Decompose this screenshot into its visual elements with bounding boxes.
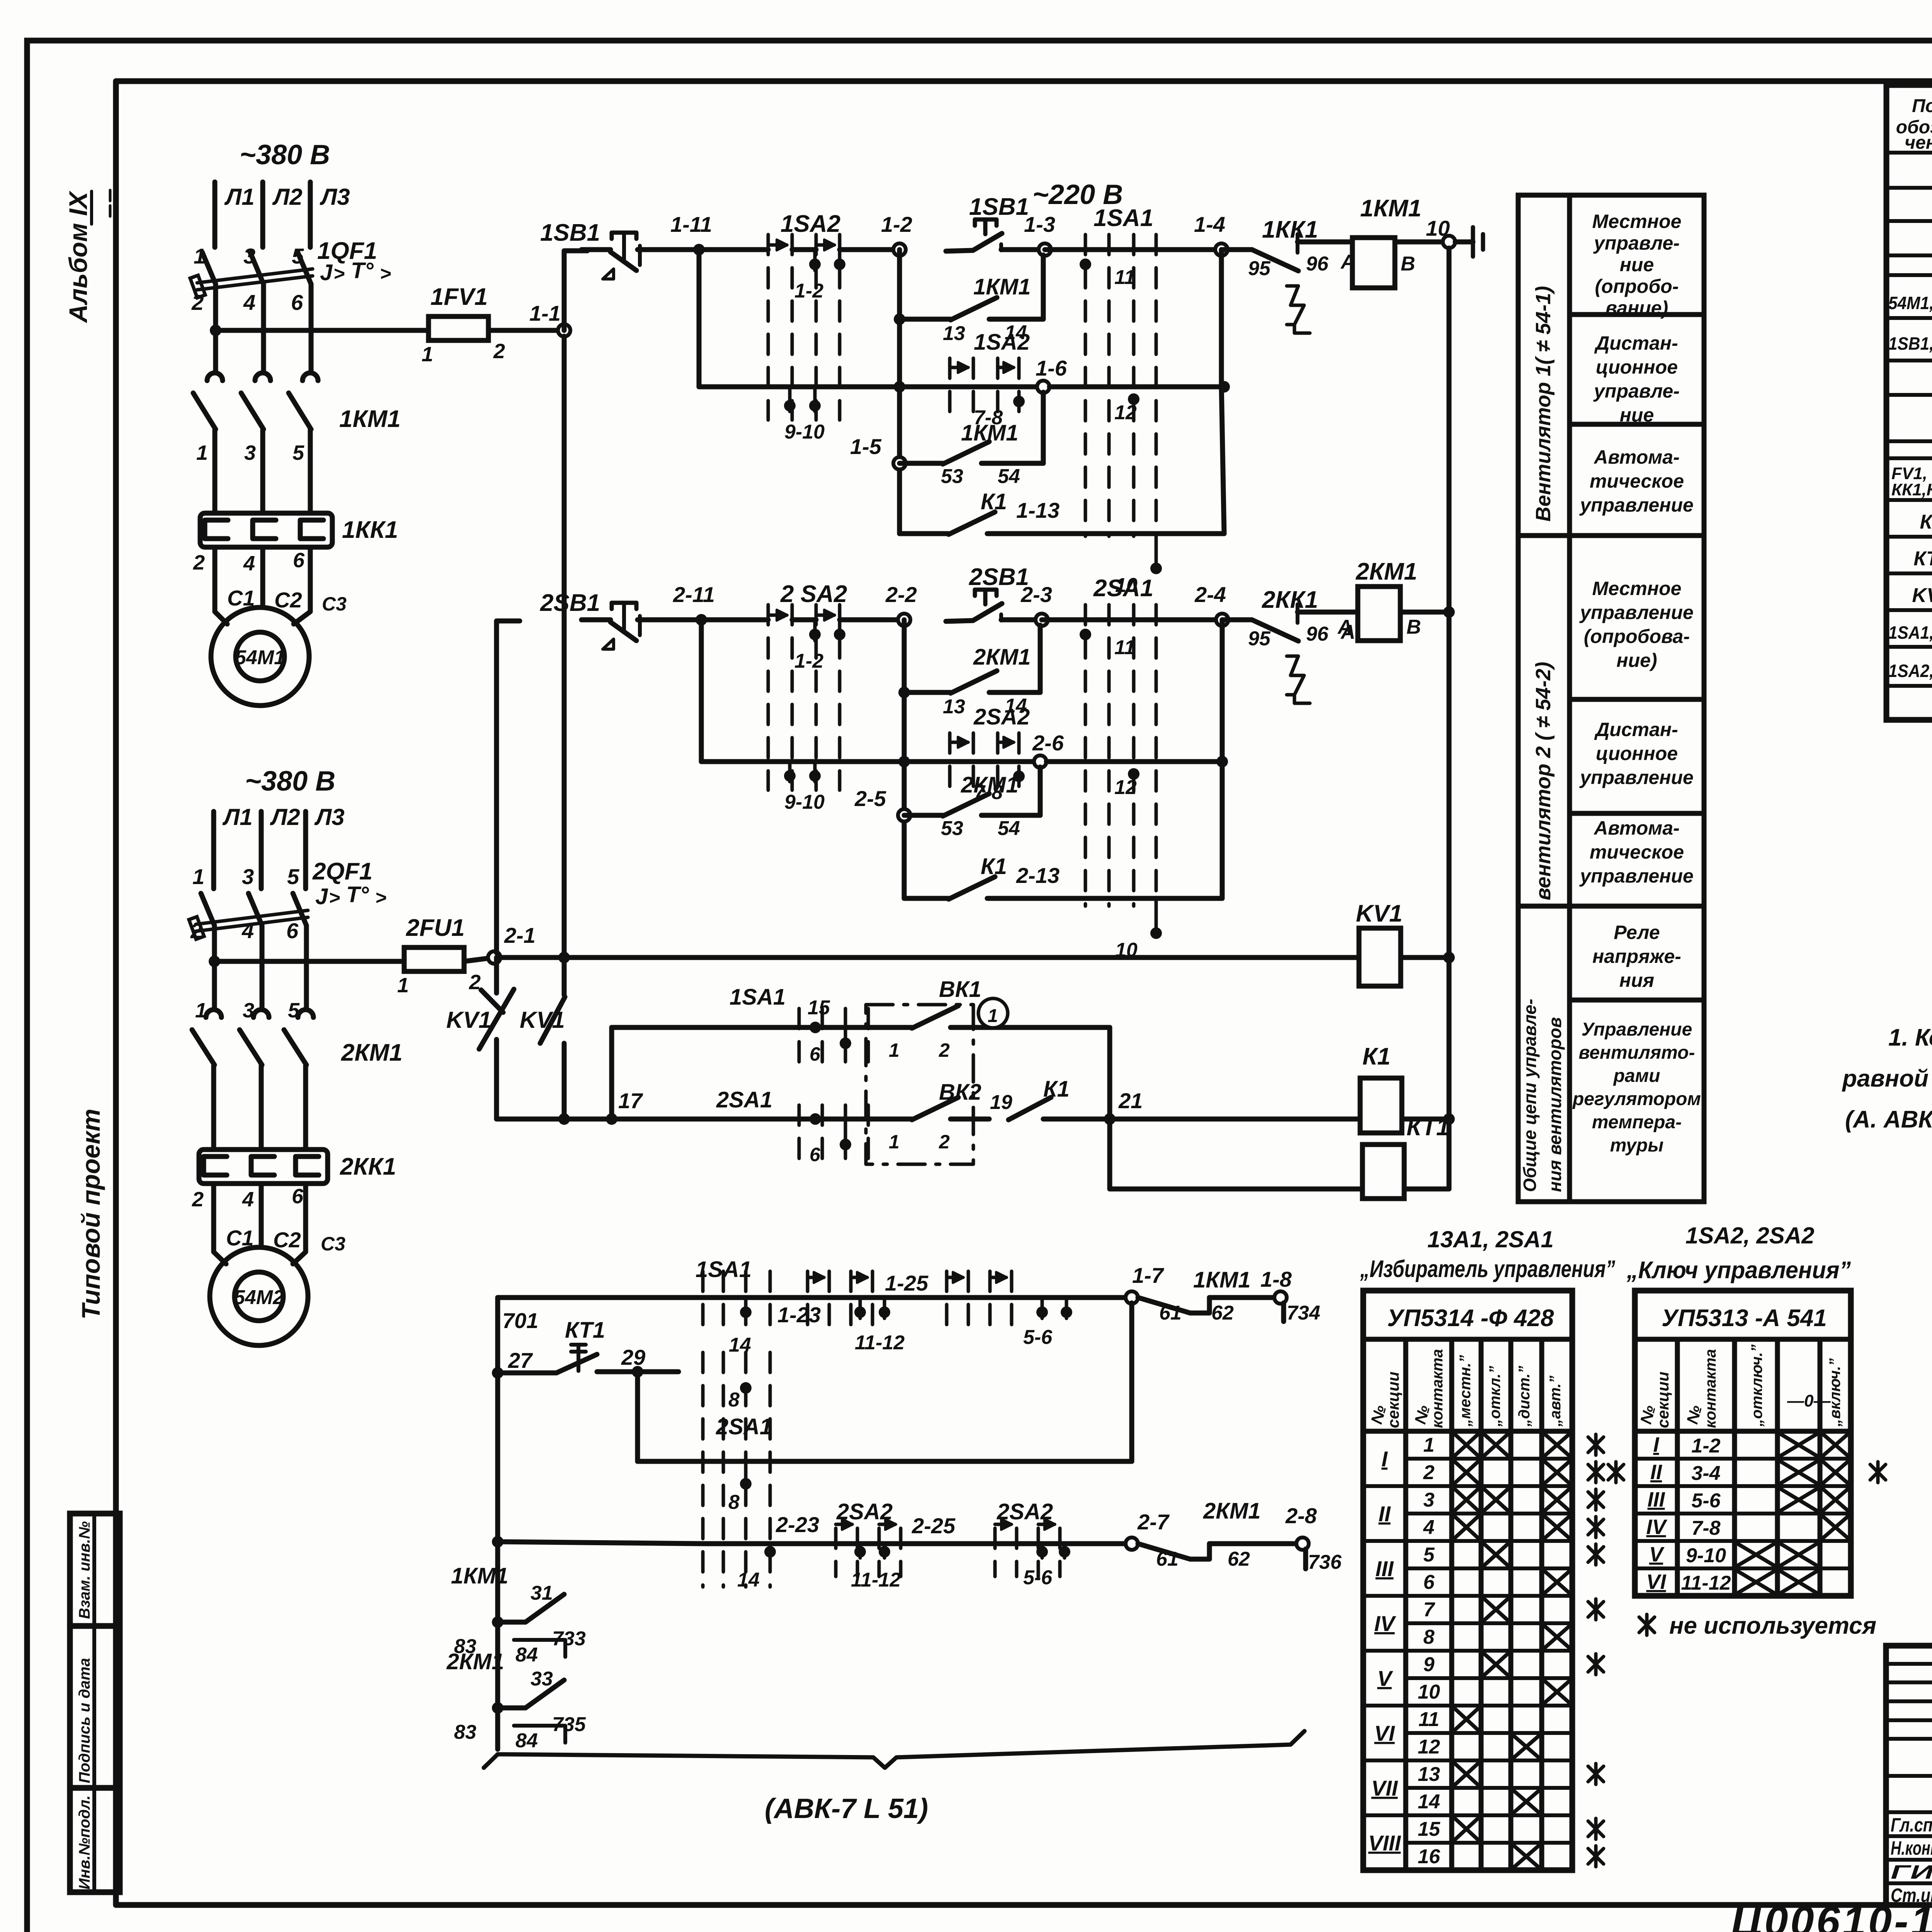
svg-text:54М2: 54М2 [234,1286,284,1309]
svg-text:14: 14 [729,1334,751,1356]
svg-text:Поз.: Поз. [1912,96,1932,116]
svg-text:V: V [1649,1543,1665,1566]
svg-text:1КК1: 1КК1 [1262,216,1318,243]
svg-text:1: 1 [889,1039,900,1061]
svg-text:2-3: 2-3 [1020,582,1052,607]
pushbutton 1SB1 (NC) [540,219,667,279]
svg-text:2FU1: 2FU1 [406,915,465,941]
svg-text:8: 8 [1423,1626,1435,1648]
svg-text:1КК1: 1КК1 [342,517,398,543]
wire: KM2 to KK2 leads [211,1065,216,1150]
svg-text:9-10: 9-10 [784,791,825,813]
svg-text:˃: ˃ [375,887,386,908]
svg-text:С3: С3 [321,1233,345,1255]
svg-text:3: 3 [1423,1489,1435,1511]
wire: to node 1-3 [1020,247,1045,252]
svg-text:1SB1,2SB1: 1SB1,2SB1 [1888,333,1932,354]
svg-text:2: 2 [193,551,205,574]
svg-text:53: 53 [941,465,963,488]
node 2-3 [1036,614,1048,626]
svg-text:9: 9 [1423,1653,1435,1676]
svg-text:1-2: 1-2 [794,280,823,302]
wire: riser node 1-1 up to row A1 [564,251,587,330]
node 1-3 [1039,243,1051,256]
svg-text:J: J [315,884,328,909]
node 1-1 [558,324,570,337]
svg-text:Л1: Л1 [224,184,255,210]
svg-text:5: 5 [1423,1544,1435,1566]
wire: row M up to node 1-7 [1129,1303,1134,1461]
node 1-2 [893,243,906,256]
svg-text:1: 1 [422,343,433,366]
wire: fuse to node 1-1 [488,328,564,333]
svg-text:не используется: не используется [1669,1612,1876,1639]
svg-text:4: 4 [243,290,255,315]
svg-text:2: 2 [939,1039,950,1061]
svg-text:83: 83 [454,1721,476,1743]
wire: right spine node 1-4 down [1219,250,1224,387]
svg-text:1SB1: 1SB1 [540,219,600,246]
svg-text:1-2: 1-2 [794,650,823,672]
thermal relay heaters 1&#1050;&#1050;1 [200,513,398,547]
node 2-4 [1216,614,1228,626]
svg-text:11: 11 [1418,1708,1439,1731]
wire: row C1 right to spine [1049,384,1224,389]
svg-text:VI: VI [1374,1721,1395,1745]
svg-text:1-7: 1-7 [1132,1263,1165,1287]
svg-text:1-25: 1-25 [885,1271,929,1295]
svg-text:Вентилятор 1( ≠ 54-1): Вентилятор 1( ≠ 54-1) [1532,286,1555,522]
svg-text:1-1: 1-1 [529,301,561,325]
wire: control feed bus 2 from phase 1 [209,956,220,967]
selector 2SA1 contact 8 markers [703,1352,770,1587]
pushbutton 1SB1 (NO) [946,194,1035,251]
svg-text:54: 54 [998,817,1020,840]
svg-text:В: В [1401,253,1415,275]
svg-text:1. Контакт реле ВК-2 замыкае: 1. Контакт реле ВК-2 замыкается при темп… [1888,1024,1932,1051]
svg-text:J: J [320,260,333,285]
svg-text:равной 20°С, контакт ВК1 з: равной 20°С, контакт ВК1 замыкается при … [1842,1065,1932,1092]
svg-text:рами: рами [1613,1066,1660,1086]
cable run line with brace [484,1731,1304,1768]
svg-text:3: 3 [242,864,254,889]
svg-text:1: 1 [889,1131,900,1153]
svg-text:темпера-: темпера- [1592,1112,1682,1133]
svg-text:(АВК-7 L 51): (АВК-7 L 51) [765,1793,928,1824]
svg-text:19: 19 [990,1091,1012,1114]
svg-text:4: 4 [243,552,255,575]
svg-text:12: 12 [1418,1736,1440,1758]
wire: KM to KK leads [213,430,218,513]
svg-text:6: 6 [293,549,305,572]
svg-text:К1: К1 [1362,1043,1391,1070]
svg-text:1-3: 1-3 [1024,212,1055,236]
svg-text:1-6: 1-6 [1036,356,1067,380]
wire: control feed bus from phase 1 [210,325,221,336]
svg-text:T°: T° [346,882,369,907]
svg-text:13А1, 2SA1: 13А1, 2SA1 [1427,1226,1554,1252]
svg-text:IV: IV [1646,1515,1667,1539]
svg-text:управление: управление [1579,494,1694,516]
svg-text:6: 6 [291,290,303,315]
motor 54&#1052;1 [211,607,309,706]
svg-text:управле-: управле- [1593,232,1680,254]
wires: KK2 to motor 2 leads [214,1184,226,1264]
svg-text:1: 1 [196,441,208,464]
svg-text:„Избиратель управления”: „Избиратель управления” [1360,1256,1615,1282]
svg-text:8: 8 [728,1389,740,1411]
node 2-2 [898,614,910,626]
svg-text:1-23: 1-23 [777,1303,821,1327]
svg-text:10: 10 [1426,216,1450,240]
node 2-5 + contactor aux 2KM1 53-54 row D2 [898,809,910,821]
svg-text:Инв.№подл.: Инв.№подл. [76,1795,93,1889]
svg-text:контакта: контакта [1429,1349,1446,1428]
svg-text:Гл.спец.: Гл.спец. [1891,1814,1932,1836]
svg-text:—0—: —0— [1787,1391,1831,1410]
svg-text:1SA2,2SA2: 1SA2,2SA2 [1888,661,1932,681]
svg-text:Л3: Л3 [314,804,345,830]
svg-text:5: 5 [293,441,304,464]
svg-text:III: III [1376,1556,1394,1581]
svg-text:туры: туры [1610,1135,1664,1156]
wire: row A2 to node 2-11 [665,617,768,622]
svg-text:5-6: 5-6 [1023,1566,1053,1589]
node 2-8 [1296,1537,1309,1550]
svg-text:ВК1: ВК1 [939,977,981,1002]
svg-text:29: 29 [621,1345,645,1369]
svg-text:Взам. инв.№: Взам. инв.№ [76,1521,93,1619]
svg-text:27: 27 [508,1348,533,1372]
svg-text:2-7: 2-7 [1137,1510,1170,1534]
svg-text:17: 17 [618,1088,643,1113]
svg-text:736: 736 [1308,1551,1342,1573]
svg-text:13: 13 [1418,1763,1440,1786]
svg-text:IV: IV [1374,1611,1397,1636]
svg-text:УП5313 -А 541: УП5313 -А 541 [1662,1305,1827,1332]
node 2-7 [1126,1537,1138,1550]
svg-text:11: 11 [1114,636,1135,659]
wire: selfhold row B2 [898,687,910,698]
svg-text:9-10: 9-10 [784,421,825,443]
svg-text:1КМ1: 1КМ1 [1360,195,1422,222]
svg-text:(опробова-: (опробова- [1584,626,1690,647]
svg-text:1КМ1: 1КМ1 [451,1563,508,1588]
node 21 [1104,1113,1116,1125]
phase wires L1 L2 L3 [213,182,218,247]
node 1-5 + contactor aux 1KM1 53-54 row D1 [893,457,906,469]
svg-text:Дистан-: Дистан- [1594,719,1678,740]
svg-text:96: 96 [1306,623,1329,645]
svg-text:96: 96 [1306,253,1329,275]
svg-text:701: 701 [502,1308,538,1333]
svg-text:VII: VII [1371,1776,1398,1800]
svg-text:КК1,КМ1: КК1,КМ1 [1891,480,1932,499]
svg-text:1: 1 [397,974,409,997]
svg-text:V: V [1377,1666,1393,1690]
wire: row C1 from node 1-11 [697,250,702,387]
svg-text:6: 6 [1423,1571,1435,1594]
svg-text:„дист.”: „дист.” [1516,1366,1533,1427]
svg-text:ционное: ционное [1596,356,1678,378]
wire: phase leads QF to KM [213,284,218,372]
component list table [1886,85,1932,720]
svg-text:2: 2 [192,1188,204,1211]
svg-text:„включ.”: „включ.” [1827,1358,1844,1427]
svg-text:ние: ние [1620,404,1654,426]
svg-text:ние: ние [1620,254,1654,276]
svg-text:КТ1: КТ1 [1913,548,1932,570]
svg-text:Местное: Местное [1592,578,1682,599]
svg-text:6: 6 [286,918,299,943]
svg-text:734: 734 [1287,1302,1320,1324]
svg-text:2SA1: 2SA1 [716,1414,772,1439]
svg-text:KV1: KV1 [1912,584,1932,607]
svg-text:4: 4 [242,1188,254,1211]
svg-text:62: 62 [1211,1302,1234,1324]
svg-text:2: 2 [191,290,204,315]
svg-text:Л2: Л2 [270,804,300,830]
svg-text:3: 3 [243,244,255,268]
svg-text:УП5314 -Ф 428: УП5314 -Ф 428 [1387,1305,1554,1332]
svg-text:секции: секции [1654,1372,1672,1428]
ground / neutral terminal [1455,240,1473,245]
svg-text:Местное: Местное [1592,211,1682,232]
svg-text:(опробо-: (опробо- [1595,276,1679,297]
svg-text:4: 4 [241,918,254,943]
svg-text:2-1: 2-1 [504,923,536,947]
wire: vertical spine from node 10 down to coils [1447,248,1452,1156]
wires: KK to motor leads [215,547,227,624]
wire: row BK1 right end down to node 21 [1012,1025,1110,1030]
svg-text:˃: ˃ [380,263,391,284]
node 1-7 [1126,1291,1138,1304]
svg-text:˃: ˃ [329,887,340,908]
svg-text:2 SA2: 2 SA2 [780,581,847,607]
svg-text:735: 735 [552,1713,586,1736]
svg-text:6: 6 [292,1185,304,1208]
svg-text:2КМ1: 2КМ1 [1203,1498,1260,1524]
svg-text:Реле: Реле [1614,922,1660,943]
node 10 [1443,236,1455,248]
svg-text:Л3: Л3 [320,184,350,210]
svg-text:KV1: KV1 [1356,900,1403,927]
contactor contacts 1&#1050;&#1052;1 [193,373,401,464]
svg-text:I: I [1381,1447,1388,1471]
svg-text:5: 5 [292,244,304,268]
svg-text:2-4: 2-4 [1194,582,1226,607]
wire: node 21 down and to coil KT1 [1107,1119,1112,1189]
node 1-4 [1215,243,1228,256]
svg-text:2: 2 [493,340,505,363]
svg-text:вентилято-: вентилято- [1579,1043,1695,1063]
node 1-6 [1037,381,1049,393]
svg-text:1КМ1: 1КМ1 [1193,1267,1250,1293]
svg-text:тическое: тическое [1590,841,1684,863]
svg-text:53: 53 [941,817,963,840]
wire: row A1 to node 1-11 [665,247,768,252]
temperature contact box (dash-dot) [866,1005,973,1164]
svg-text:Л2: Л2 [272,184,303,210]
svg-text:1SA1,2SA1: 1SA1,2SA1 [1888,622,1932,643]
svg-text:62: 62 [1228,1548,1250,1570]
svg-text:1FV1: 1FV1 [430,284,488,310]
svg-text:12: 12 [1114,776,1137,799]
svg-text:2SB1: 2SB1 [540,590,600,616]
svg-text:84: 84 [515,1730,538,1752]
svg-text:тическое: тическое [1590,470,1684,492]
contactor contacts 2&#1050;&#1052;1 [192,999,403,1066]
svg-text:5: 5 [288,999,300,1022]
junction: spine at 2KM1 coil [1443,606,1455,618]
svg-text:54М1: 54М1 [235,646,285,669]
svg-text:11-12: 11-12 [1681,1572,1731,1594]
svg-text:54: 54 [998,465,1020,488]
selector table УП5313-А541 [1635,1291,1851,1596]
function strip table [1518,195,1704,1202]
wire: row C2 right to spine [1046,759,1222,764]
svg-text:1-5: 1-5 [850,434,882,459]
wire: right spine node 2-4 down [1220,620,1225,898]
side stamp boxes [70,1514,120,1892]
wire: node 29 down to row M [635,1372,640,1461]
svg-text:„авт.”: „авт.” [1547,1376,1564,1427]
svg-text:~380 В: ~380 В [240,139,330,170]
svg-text:Типовой проект: Типовой проект [77,1109,105,1320]
fuse 1FV1 [422,284,505,366]
svg-text:В: В [1406,616,1421,638]
signature rows [1886,1662,1932,1666]
svg-text:15: 15 [808,997,830,1019]
svg-text:2-25: 2-25 [912,1514,956,1538]
svg-text:Альбом IX: Альбом IX [64,190,92,323]
svg-text:„отключ.”: „отключ.” [1748,1344,1765,1427]
svg-text:6: 6 [810,1043,821,1065]
svg-text:3: 3 [243,999,254,1022]
svg-text:КТ1: КТ1 [1406,1114,1449,1141]
svg-text:1: 1 [988,1006,998,1026]
wire: riser from node 1-1 down to KV line [562,336,567,957]
svg-text:7-8: 7-8 [1691,1517,1720,1539]
svg-text:12: 12 [1114,401,1137,424]
svg-text:С3: С3 [322,593,347,615]
svg-text:2КК1: 2КК1 [1262,587,1318,613]
wire: to node 2-3 [1020,617,1042,622]
svg-text:VI: VI [1646,1570,1666,1594]
node 2-6 [1034,755,1046,768]
wire: row T1 (fan 1 selection) [498,1295,705,1300]
svg-text:1SA1: 1SA1 [730,985,786,1010]
legend: not used [1639,1614,1655,1635]
circuit breaker 2QF1 [189,858,386,943]
svg-text:5-6: 5-6 [1691,1490,1721,1512]
svg-text:2: 2 [190,918,202,943]
svg-text:~380 В: ~380 В [245,766,335,797]
svg-text:31: 31 [531,1582,553,1604]
node 29 [632,1366,643,1378]
thermal relay heaters 2&#1050;&#1050;1 [199,1150,396,1184]
phase wires L1 L2 L3 (circuit 2) [211,811,216,889]
svg-text:контакта: контакта [1702,1349,1719,1428]
svg-text:напряже-: напряже- [1592,946,1681,967]
selector table УП5314-Ф428 [1363,1291,1572,1870]
svg-text:1-2: 1-2 [1691,1435,1720,1457]
selector 1SA2 contact 5-6 (row T1) [947,1271,1012,1325]
svg-text:95: 95 [1248,257,1271,280]
svg-text:733: 733 [552,1628,586,1650]
svg-text:1: 1 [194,244,206,268]
svg-text:1-4: 1-4 [1194,212,1225,236]
svg-text:Управление: Управление [1582,1019,1692,1040]
wire: up to node 1-3 [1041,255,1046,319]
svg-text:11-12: 11-12 [855,1332,905,1354]
svg-text:13: 13 [943,696,965,718]
svg-text:5: 5 [287,864,299,889]
svg-text:1КМ1: 1КМ1 [339,406,401,432]
svg-text:(А. АВК-8 L 52): (А. АВК-8 L 52) [1845,1106,1932,1133]
wire: spine 701 [495,1298,500,1749]
svg-text:1КМ1: 1КМ1 [973,274,1031,299]
svg-text:KV1: KV1 [446,1007,492,1033]
selector 2SA1 contact 14 (row M2) [705,1541,808,1546]
wire: row M [638,1459,1132,1464]
svg-text:Общие цепи управле-: Общие цепи управле- [1520,999,1540,1192]
svg-text:К1: К1 [1920,511,1932,533]
svg-text:III: III [1647,1488,1665,1511]
note reference mark 1 [978,998,1008,1028]
svg-text:управле-: управле- [1593,380,1680,402]
svg-text:2: 2 [939,1131,950,1153]
svg-text:Ст.инж.: Ст.инж. [1891,1884,1932,1906]
fuse 2FU1 [397,915,481,997]
wire: row M2 (fan 2 selection) [492,1536,503,1548]
svg-text:3: 3 [244,441,256,464]
svg-text:6: 6 [810,1144,821,1165]
svg-text:II: II [1650,1461,1662,1484]
svg-text:1: 1 [192,864,204,889]
svg-text:1-11: 1-11 [670,212,712,236]
selector 1SA2 contact 11-12 (row T1) [808,1271,872,1325]
wire: selfhold row B1 [894,313,905,325]
svg-text:14: 14 [737,1569,760,1591]
svg-text:˃: ˃ [333,263,345,284]
svg-text:вание): вание) [1605,297,1668,319]
svg-text:2: 2 [1423,1461,1435,1484]
svg-text:84: 84 [515,1644,538,1666]
svg-text:2SA2: 2SA2 [973,704,1030,730]
svg-text:Н.контр.: Н.контр. [1891,1837,1932,1859]
svg-text:А: А [1337,616,1352,638]
svg-text:„Ключ управления”: „Ключ управления” [1626,1257,1851,1284]
svg-text:Дистан-: Дистан- [1594,332,1678,354]
svg-text:7: 7 [1423,1599,1435,1621]
svg-text:2SB1: 2SB1 [969,564,1029,590]
svg-text:2КМ1: 2КМ1 [973,645,1031,670]
svg-text:13: 13 [943,322,965,345]
svg-text:„местн.”: „местн.” [1457,1355,1474,1427]
svg-text:8: 8 [728,1491,740,1514]
wire: feed bend row A2 from node 2-1 [497,621,520,953]
inner border bottom [116,1902,1932,1908]
svg-text:КТ1: КТ1 [565,1318,605,1343]
svg-text:ния: ния [1619,969,1654,991]
svg-text:2-11: 2-11 [673,582,715,607]
svg-text:1: 1 [195,999,207,1022]
svg-text:1SA2, 2SA2: 1SA2, 2SA2 [1685,1223,1815,1248]
wire: up to node 2-3 [1038,625,1043,692]
svg-text:T°: T° [351,258,374,283]
svg-text:2-2: 2-2 [885,582,917,607]
